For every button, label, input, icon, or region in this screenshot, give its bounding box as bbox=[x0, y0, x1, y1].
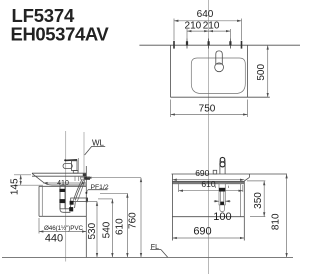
dim 530 extension bbox=[87, 201, 97, 203]
svg-text:Ø46(1½")PVC: Ø46(1½")PVC bbox=[44, 224, 83, 232]
svg-text:100: 100 bbox=[213, 211, 231, 223]
mounting hole tick left (640) bbox=[173, 41, 175, 49]
centerline of top and front views bbox=[208, 0, 210, 274]
cabinet bottom bbox=[172, 216, 244, 218]
dim 100 arrows bbox=[214, 200, 219, 202]
FL leader step bbox=[161, 250, 168, 258]
cabinet side: front inner edge bbox=[41, 186, 43, 216]
faucet lever bbox=[65, 159, 77, 162]
dim 690 top line bbox=[172, 179, 244, 181]
small rect left of faucet bbox=[213, 170, 217, 174]
cabinet side: bottom bbox=[39, 215, 86, 217]
floor line FL bbox=[2, 256, 293, 258]
faucet pop-up rod bbox=[77, 158, 79, 173]
basin rim bottom line bbox=[32, 175, 84, 177]
trap outlet pipe to wall bbox=[71, 198, 87, 201]
PF1/2 underline bbox=[88, 189, 108, 191]
dim 640 extension left bbox=[173, 19, 175, 41]
cabinet right inner line bbox=[239, 184, 241, 217]
dim 145 extensions bbox=[14, 174, 31, 176]
dim 210 210 line bbox=[187, 30, 209, 32]
svg-text:610: 610 bbox=[115, 218, 126, 235]
wall line bbox=[85, 166, 87, 257]
tailpiece lower nut black bbox=[59, 199, 65, 203]
supply hoses bbox=[75, 180, 83, 201]
dim 210 extension lines bbox=[186, 29, 188, 40]
svg-text:145: 145 bbox=[10, 178, 21, 195]
dim 145 line bbox=[20, 175, 22, 185]
svg-text:810: 810 bbox=[271, 213, 282, 230]
basin inner bowl rounded rectangle bbox=[191, 58, 245, 94]
faucet front body bbox=[219, 161, 221, 175]
FL label underline bbox=[150, 249, 161, 251]
counter right edge bbox=[247, 45, 249, 97]
dim 350 line bbox=[263, 181, 265, 217]
faucet base stem bbox=[73, 171, 78, 174]
svg-text:530: 530 bbox=[87, 222, 98, 239]
cabinet top line bbox=[172, 183, 244, 185]
dim 610 ext ticks bbox=[178, 183, 180, 192]
bolt symbol center bbox=[208, 39, 210, 49]
trap black union nut upper bbox=[70, 201, 74, 205]
slab top line extending to 810 dim bbox=[172, 173, 288, 175]
bolt symbol left (210) bbox=[186, 39, 188, 49]
cabinet right edge + 690 ext bbox=[243, 181, 245, 241]
angle valve stem bbox=[81, 177, 85, 179]
slab left edge + cabinet left edge + 690 ext bbox=[171, 174, 173, 241]
svg-text:640: 640 bbox=[197, 9, 214, 20]
dim 500 line bbox=[267, 45, 269, 97]
cabinet side: front edge bbox=[38, 186, 40, 216]
faucet top view spout circle bbox=[215, 63, 224, 72]
dim 640 line bbox=[174, 20, 242, 22]
faucet shank below deck bbox=[74, 176, 76, 181]
counter top edge line (extends both sides) bbox=[139, 44, 300, 46]
drain pipe inner lines bbox=[220, 192, 222, 202]
svg-text:440: 440 bbox=[45, 233, 63, 245]
mounting hole tick right (640) bbox=[241, 41, 243, 49]
svg-text:WL: WL bbox=[92, 138, 105, 147]
slab dark front band bbox=[172, 181, 244, 183]
dim 440 line bbox=[39, 231, 86, 233]
slab right edge bbox=[249, 174, 251, 177]
counter bottom edge + 500 extension bbox=[171, 96, 270, 98]
svg-text:610: 610 bbox=[201, 179, 215, 189]
angle valve bbox=[84, 177, 90, 180]
wall escutcheon flange bbox=[86, 198, 88, 203]
svg-text:690: 690 bbox=[193, 226, 211, 238]
dim 410 line bbox=[43, 182, 86, 184]
faucet front handle knobs bbox=[220, 157, 225, 162]
dim 690 bottom line bbox=[172, 237, 244, 239]
dim 810 line bbox=[286, 174, 288, 257]
svg-text:690: 690 bbox=[195, 168, 209, 178]
svg-text:350: 350 bbox=[253, 192, 264, 209]
svg-text:210: 210 bbox=[185, 21, 202, 32]
drain tailpiece bbox=[60, 186, 65, 209]
dim 540 line bbox=[111, 199, 113, 258]
drain pipe middle black nut bbox=[220, 202, 224, 205]
WL underline bbox=[91, 146, 105, 148]
dim 640 extension right bbox=[241, 19, 243, 41]
svg-text:210: 210 bbox=[203, 21, 220, 32]
drain pipe bottom U bbox=[220, 205, 225, 212]
svg-text:750: 750 bbox=[199, 104, 216, 115]
cabinet side: top bbox=[39, 185, 86, 187]
basin front slant and underside bbox=[32, 173, 86, 185]
dim 750 extension left bbox=[170, 100, 172, 118]
drain pipe top black band bbox=[219, 188, 225, 192]
dim 750 line bbox=[171, 114, 248, 116]
faucet body bbox=[72, 161, 78, 171]
slab right chamfer bbox=[244, 177, 249, 181]
faucet lever knob bbox=[64, 159, 66, 161]
trap riser bbox=[70, 202, 75, 209]
svg-text:500: 500 bbox=[256, 64, 267, 81]
dim 530 line bbox=[96, 202, 98, 258]
drain pipe outline bbox=[219, 184, 225, 205]
dim 610 extension bbox=[100, 192, 127, 194]
dim 760 line bbox=[140, 178, 142, 258]
centerline of side view bbox=[65, 131, 67, 262]
svg-text:760: 760 bbox=[128, 212, 139, 229]
dim 440 ext left bbox=[38, 218, 40, 234]
svg-text:540: 540 bbox=[102, 221, 113, 238]
dim 540 extension bbox=[98, 198, 112, 200]
dim 760 extension bbox=[87, 177, 141, 179]
trap bottom elbow bbox=[60, 204, 70, 212]
dim 610 line front bbox=[179, 190, 243, 192]
svg-text:EH05374AV: EH05374AV bbox=[11, 24, 110, 45]
bolt symbol right (210) bbox=[229, 39, 231, 49]
dim 350 bottom ext bbox=[250, 216, 265, 218]
wall mounting bracket bbox=[83, 174, 86, 177]
WL leader line bbox=[85, 147, 92, 155]
supply water line bbox=[83, 132, 85, 177]
PF1/2 leader bbox=[86, 190, 88, 193]
dim 750 extension right bbox=[247, 100, 249, 118]
basin rim top line bbox=[32, 172, 86, 174]
faucet top view capsule bbox=[216, 51, 223, 64]
dim 610 line bbox=[126, 193, 128, 257]
trap black union nut lower bbox=[69, 207, 73, 211]
svg-text:410: 410 bbox=[57, 180, 69, 187]
faucet spout bbox=[63, 163, 72, 168]
tailpiece top nut black bbox=[59, 189, 65, 192]
pipe side ticks bbox=[215, 186, 217, 188]
dim 350 top ext bbox=[247, 180, 265, 182]
counter left edge bbox=[170, 45, 172, 97]
